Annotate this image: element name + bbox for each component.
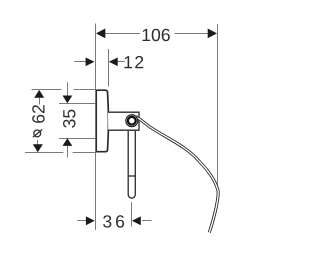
dimension 35 extension line top xyxy=(59,103,95,105)
dimension 62 arrow up xyxy=(34,90,44,98)
dimension 106 arrow left xyxy=(96,29,105,39)
dimension 106 line xyxy=(105,33,209,35)
wire (double line) xyxy=(136,117,218,233)
pivot ring inner annulus xyxy=(128,117,136,125)
dimension 62 line segments xyxy=(38,92,40,152)
wall line lower segment xyxy=(95,152,97,230)
dimension 35 arrow down (above top ext line) xyxy=(63,96,73,104)
dimension 35 label (rotated) xyxy=(63,110,75,128)
wall plate side view xyxy=(96,90,108,152)
pivot housing box xyxy=(108,112,139,130)
diameter symbol xyxy=(33,130,42,138)
dimension 36 arrow right (points left at bar line) xyxy=(132,216,141,225)
dimension 36 label xyxy=(103,215,124,228)
wall line upper segment xyxy=(95,24,97,91)
dimension 12 label xyxy=(125,56,144,68)
dimension 36 tails xyxy=(77,220,151,222)
dimension 12 tails xyxy=(74,61,125,63)
dimension 35 line segments (outside) xyxy=(67,82,69,157)
dimension 62 label (rotated) xyxy=(32,105,45,123)
dimension 12 extension line right xyxy=(108,49,110,87)
dimension 106 arrow right xyxy=(208,29,217,39)
dimension 106 extension line right xyxy=(217,24,219,187)
dimension 106 label xyxy=(143,29,170,42)
dimension 12 arrow right (points left) xyxy=(109,58,118,67)
bar tick xyxy=(128,175,135,177)
dimension 62 extension line top xyxy=(32,89,62,91)
dimension 62 extension line bottom xyxy=(25,152,63,154)
pivot ring outer xyxy=(126,115,138,127)
dimension 35 arrow up (below bottom ext line) xyxy=(63,138,73,146)
hanging bar xyxy=(128,131,135,198)
dimension 36 extension line (bar centre) xyxy=(131,202,133,226)
dimension 36 arrow left (points right at wall line) xyxy=(86,216,95,225)
dimension 62 arrow down xyxy=(33,144,43,152)
dimension 12 arrow left (points right) xyxy=(86,58,95,67)
dimension 35 extension line bottom xyxy=(59,138,95,140)
